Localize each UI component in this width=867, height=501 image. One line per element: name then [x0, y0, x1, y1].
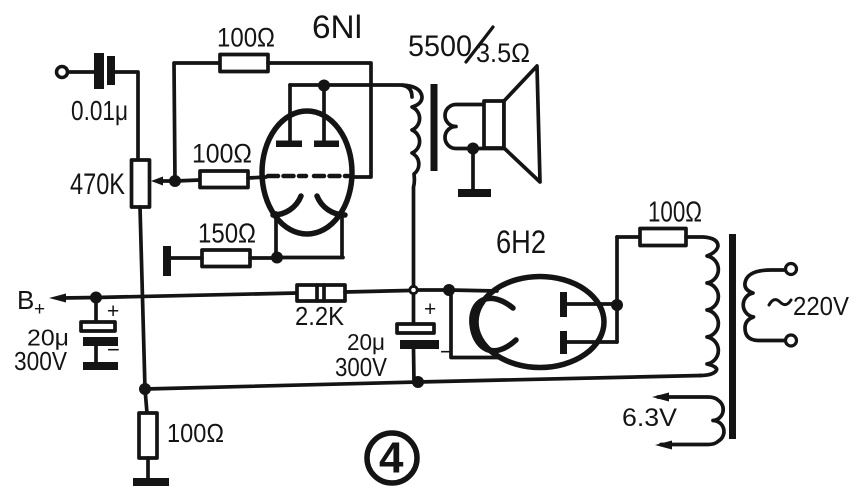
- speaker LS1 magnet: [484, 101, 504, 148]
- svg-text:100Ω: 100Ω: [167, 418, 224, 448]
- svg-text:2.2K: 2.2K: [295, 301, 345, 331]
- wire wiper to grid resistor: [175, 180, 200, 181]
- svg-text:0.01μ: 0.01μ: [71, 95, 128, 126]
- label C3 300V: [335, 352, 388, 382]
- wire bottom bus: [145, 376, 701, 390]
- wire plate to output transformer: [290, 85, 412, 97]
- transformer T1 output primary: [402, 85, 422, 286]
- ground bar for speaker: [458, 189, 491, 197]
- potentiometer 470K body: [132, 160, 150, 207]
- label B+: [17, 285, 45, 320]
- capacitor C2 20u 300V: [81, 298, 118, 362]
- label R6 100ohm: [192, 139, 252, 169]
- svg-text:−: −: [107, 337, 120, 362]
- transformer T2 secondary 220V winding: [743, 270, 787, 341]
- label C2 plus: [107, 300, 119, 323]
- label R3 2.2K: [295, 301, 345, 331]
- B+ arrow: [49, 294, 96, 303]
- resistor R5 100ohm cathode: [139, 389, 157, 478]
- svg-text:6.3V: 6.3V: [622, 404, 677, 432]
- label C1 0.01u: [71, 95, 128, 126]
- node cathode junction dot: [271, 252, 283, 264]
- wire anode riser: [615, 237, 619, 342]
- ground bar for R5: [133, 478, 169, 486]
- resistor R2 150ohm: [171, 250, 277, 267]
- label ~220V: [769, 291, 850, 321]
- svg-text:+: +: [107, 300, 119, 323]
- label 470K: [70, 168, 125, 201]
- input terminal J1: [57, 67, 68, 78]
- tube V1 grid left dashes: [248, 176, 306, 178]
- tube V2 anode top: [560, 292, 617, 317]
- node anode junction dot: [318, 80, 330, 92]
- terminal 220V top: [786, 264, 797, 275]
- wire: [68, 70, 94, 74]
- resistor R1 100ohm grid left: [220, 55, 268, 72]
- transformer T2 core: [729, 234, 736, 439]
- label T1 5500/3.5ohm: [408, 27, 530, 68]
- tube V2 filament cathode arc: [472, 298, 516, 350]
- wire 470K bottom: [140, 207, 145, 389]
- wire: [174, 63, 220, 181]
- capacitor C3 20u 300V: [397, 294, 439, 382]
- wire speaker ground lead: [471, 148, 475, 190]
- node open circle: [410, 286, 417, 293]
- tube V1 cathode left: [273, 196, 301, 258]
- wire cathode bus: [277, 256, 343, 260]
- label C3 plus: [424, 298, 436, 321]
- label 6.3V: [622, 404, 677, 432]
- label tube 6H2: [496, 224, 546, 260]
- label C2 300V: [14, 346, 68, 376]
- wire: [268, 63, 371, 177]
- svg-text:+: +: [424, 298, 436, 321]
- tube V1 6N1 envelope: [262, 111, 352, 234]
- arrow heater bottom: [655, 441, 672, 450]
- svg-text:4: 4: [379, 434, 404, 483]
- svg-text:100Ω: 100Ω: [192, 139, 252, 169]
- label R5 100ohm: [167, 418, 224, 448]
- label C2 minus: [107, 337, 120, 362]
- wire to cathode top: [449, 290, 497, 291]
- wire B+ line: [96, 293, 297, 298]
- wire: [345, 291, 409, 293]
- arrow heater top: [652, 393, 669, 402]
- tube V1 anode right plate: [314, 86, 339, 147]
- svg-text:220V: 220V: [793, 291, 850, 321]
- transformer T2 primary winding: [686, 237, 718, 376]
- node grid junction dot: [169, 175, 181, 187]
- svg-text:100Ω: 100Ω: [648, 197, 702, 229]
- ground bar for C2: [83, 362, 118, 370]
- tube V1 grid right dashes: [314, 174, 348, 179]
- node bus cap dot: [412, 376, 424, 388]
- label C3 minus: [440, 339, 453, 364]
- tube V1 anode left plate: [276, 85, 302, 147]
- svg-text:6Nl: 6Nl: [312, 9, 362, 45]
- svg-text:B: B: [17, 285, 34, 315]
- figure number circled 4: [367, 433, 417, 483]
- wire to cathode bottom: [451, 290, 500, 358]
- node anode dot: [611, 299, 623, 311]
- transformer T1 core: [431, 84, 438, 171]
- svg-text:+: +: [34, 299, 45, 320]
- svg-text:3.5Ω: 3.5Ω: [476, 38, 530, 68]
- potentiometer wiper arrow: [151, 177, 173, 186]
- node bus left dot: [139, 383, 151, 395]
- svg-text:−: −: [440, 339, 453, 364]
- svg-text:5500: 5500: [408, 30, 472, 63]
- svg-text:150Ω: 150Ω: [198, 218, 256, 249]
- node rectifier output dot: [443, 284, 455, 296]
- label C3 20u: [347, 329, 385, 355]
- svg-text:300V: 300V: [335, 352, 388, 382]
- label tube 6N1: [312, 9, 362, 45]
- node speaker ground dot: [467, 143, 479, 155]
- svg-text:470K: 470K: [70, 168, 125, 201]
- speaker LS1 cone: [504, 66, 540, 182]
- wire: [115, 72, 138, 161]
- terminal 220V bottom: [786, 335, 797, 346]
- transformer T1 secondary: [445, 105, 504, 149]
- wire: [418, 288, 449, 292]
- transformer T2 heater 6.3V winding: [658, 397, 724, 445]
- label C2 20u: [27, 325, 69, 351]
- resistor R3 2.2K: [297, 285, 345, 301]
- resistor R4 100ohm: [617, 229, 686, 246]
- label R4 100ohm: [648, 197, 702, 229]
- svg-text:100Ω: 100Ω: [217, 23, 275, 53]
- resistor R6 100ohm grid mid: [200, 171, 248, 188]
- label R2 150ohm: [198, 218, 256, 249]
- svg-text:300V: 300V: [14, 346, 68, 376]
- svg-text:6H2: 6H2: [496, 224, 546, 260]
- tube V1 cathode right: [317, 196, 345, 257]
- ground bar for R2: [163, 246, 171, 276]
- label R1 100ohm: [217, 23, 275, 53]
- node B+ dot: [90, 292, 102, 304]
- capacitor C1 0.01u plates: [94, 53, 115, 89]
- tube V2 6H2 envelope: [476, 277, 604, 368]
- tube V2 anode bottom: [560, 331, 617, 354]
